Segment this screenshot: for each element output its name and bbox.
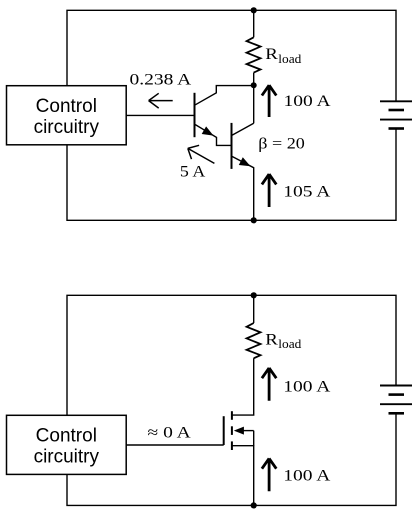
transistor Q1 emitter lead: [195, 125, 231, 146]
wire resistor to MOSFET drain: [232, 358, 254, 415]
MOSFET Q3 gate bar: [223, 416, 225, 445]
control circuitry box (bottom): [7, 415, 127, 474]
node dot collector junction: [251, 82, 257, 88]
MOSFET Q3 body lead with arrowhead: [242, 430, 254, 432]
arrow left 0.238 A current: [149, 93, 173, 108]
node dot top rail (bottom circuit): [251, 292, 257, 298]
svg-text:105 A: 105 A: [283, 182, 330, 200]
wire top rail to resistor: [253, 10, 255, 37]
svg-text:Control: Control: [36, 96, 97, 117]
transistor Q1 emitter arrowhead: [202, 126, 214, 135]
svg-text:circuitry: circuitry: [34, 117, 100, 138]
MOSFET Q3 channel segment body: [231, 426, 233, 435]
svg-text:β = 20: β = 20: [258, 134, 304, 152]
MOSFET Q3 source lead: [232, 446, 254, 506]
wire resistor to collector node: [253, 73, 255, 86]
wire collector node down to Q2 collector: [253, 85, 255, 123]
MOSFET Q3 body-source tie: [253, 431, 255, 446]
battery B2 plate short bottom: [389, 412, 405, 415]
battery B1 plate short bottom: [389, 127, 405, 130]
transistor Q2 collector lead: [232, 123, 254, 135]
arrow up 100 A upper (bottom circuit): [262, 368, 276, 401]
transistor Q2 emitter lead: [232, 156, 254, 220]
svg-text:load: load: [278, 51, 302, 65]
wire left rail upper + top rail + right rail upper (top circuit): [67, 10, 396, 101]
svg-text:100 A: 100 A: [283, 466, 330, 484]
battery B1 plate long top: [380, 100, 412, 102]
svg-text:≈ 0 A: ≈ 0 A: [148, 423, 191, 441]
wire left rail lower + bottom rail + right rail lower (top circuit): [67, 130, 396, 221]
MOSFET Q3 channel segment drain: [231, 411, 233, 420]
node dot bottom rail (bottom circuit): [251, 502, 257, 508]
transistor Q1 collector lead: [195, 86, 253, 105]
resistor Rload (top): [247, 37, 261, 72]
arrow up 105 A: [262, 174, 276, 207]
wire top rail to resistor (bottom): [253, 295, 255, 323]
battery B1 plate short: [389, 109, 405, 112]
svg-text:100 A: 100 A: [284, 92, 331, 110]
svg-text:circuitry: circuitry: [34, 446, 100, 467]
node dot top rail / load branch: [251, 7, 257, 13]
MOSFET Q3 channel segment source: [231, 441, 233, 450]
arrow up 100 A lower (bottom circuit): [262, 458, 276, 491]
battery B2 plate short: [389, 393, 405, 396]
svg-text:R: R: [265, 44, 278, 62]
battery B2 plate long top: [380, 385, 412, 387]
resistor Rload (bottom): [247, 323, 261, 358]
svg-text:100 A: 100 A: [283, 377, 330, 395]
arrow up 100 A (top circuit): [262, 85, 276, 117]
arrow 5 A pointing to emitter junction: [188, 145, 215, 163]
wire left rail lower + bottom rail + right rail lower (bottom circuit): [67, 414, 396, 505]
svg-text:0.238 A: 0.238 A: [130, 70, 192, 88]
wire left rail upper + top rail + right rail upper (bottom circuit): [67, 295, 396, 415]
battery B1 plate long: [380, 119, 412, 121]
battery B2 plate long: [380, 403, 412, 405]
wire Q1 base to control box: [126, 114, 194, 116]
svg-text:Control: Control: [36, 425, 97, 446]
transistor Q2 emitter arrowhead: [239, 157, 251, 166]
MOSFET Q3 body arrowhead: [234, 427, 244, 435]
svg-text:R: R: [265, 330, 278, 348]
svg-text:5 A: 5 A: [180, 162, 206, 180]
transistor Q2 base bar: [231, 123, 233, 169]
svg-text:load: load: [278, 337, 302, 351]
wire gate to control box: [126, 444, 224, 446]
node dot bottom rail (top circuit): [251, 217, 257, 223]
control circuitry box (top): [7, 86, 127, 145]
transistor Q1 base bar: [194, 93, 196, 137]
